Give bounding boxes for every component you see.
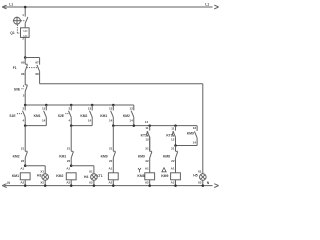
svg-text:97: 97 xyxy=(35,61,39,65)
svg-text:A2: A2 xyxy=(145,181,149,185)
svg-text:Q1: Q1 xyxy=(10,31,15,35)
svg-text:14: 14 xyxy=(145,120,149,124)
svg-text:E: E xyxy=(18,87,21,91)
svg-text:KM9: KM9 xyxy=(101,154,108,158)
svg-text:U<: U< xyxy=(24,29,28,33)
svg-text:A1: A1 xyxy=(20,167,24,171)
svg-text:14: 14 xyxy=(88,118,92,122)
svg-text:X2: X2 xyxy=(40,181,44,185)
svg-text:21: 21 xyxy=(67,147,71,151)
svg-text:1: 1 xyxy=(23,84,25,88)
svg-text:11: 11 xyxy=(171,127,175,131)
svg-text:13: 13 xyxy=(42,107,46,111)
svg-text:N: N xyxy=(7,181,10,185)
svg-text:KM8: KM8 xyxy=(137,174,144,178)
svg-text:11: 11 xyxy=(145,126,149,130)
svg-text:KM9: KM9 xyxy=(187,131,194,135)
svg-text:E: E xyxy=(13,114,16,118)
svg-text:22: 22 xyxy=(109,159,113,163)
svg-text:13: 13 xyxy=(109,107,113,111)
svg-text:22: 22 xyxy=(67,159,71,163)
svg-text:KM1: KM1 xyxy=(34,114,41,118)
svg-text:KM9: KM9 xyxy=(161,174,168,178)
svg-text:12: 12 xyxy=(171,138,175,142)
svg-text:X1: X1 xyxy=(40,170,44,174)
svg-text:14: 14 xyxy=(42,118,46,122)
svg-text:X1: X1 xyxy=(198,170,202,174)
svg-text:U<: U< xyxy=(24,34,28,38)
svg-text:22: 22 xyxy=(171,159,175,163)
svg-text:A1: A1 xyxy=(66,167,70,171)
svg-text:KM1: KM1 xyxy=(100,114,107,118)
svg-text:KM1: KM1 xyxy=(12,174,19,178)
svg-text:X1: X1 xyxy=(89,170,93,174)
svg-text:3: 3 xyxy=(23,107,25,111)
svg-text:E: E xyxy=(62,114,65,118)
svg-text:95: 95 xyxy=(21,60,25,64)
svg-text:X2: X2 xyxy=(89,181,93,185)
svg-text:N: N xyxy=(207,181,210,185)
svg-text:KM9: KM9 xyxy=(138,154,145,158)
svg-text:L1: L1 xyxy=(205,3,209,7)
svg-text:F1: F1 xyxy=(13,66,17,70)
svg-text:13: 13 xyxy=(193,126,197,130)
svg-text:A1: A1 xyxy=(108,167,112,171)
svg-text:A2: A2 xyxy=(171,181,175,185)
svg-text:X2: X2 xyxy=(198,181,202,185)
svg-text:14: 14 xyxy=(129,118,133,122)
svg-text:A1: A1 xyxy=(171,167,175,171)
svg-text:KM2: KM2 xyxy=(123,114,130,118)
svg-text:22: 22 xyxy=(21,159,25,163)
svg-text:KM1: KM1 xyxy=(59,154,66,158)
svg-text:3: 3 xyxy=(69,107,71,111)
svg-text:A2: A2 xyxy=(20,181,24,185)
svg-text:A2: A2 xyxy=(66,181,70,185)
svg-text:H4: H4 xyxy=(84,175,88,179)
svg-text:98: 98 xyxy=(35,72,39,76)
svg-text:12: 12 xyxy=(145,138,149,142)
svg-text:21: 21 xyxy=(171,147,175,151)
svg-text:H5: H5 xyxy=(193,173,197,177)
svg-text:21: 21 xyxy=(21,147,25,151)
svg-text:A1: A1 xyxy=(145,167,149,171)
svg-text:A2: A2 xyxy=(108,181,112,185)
svg-text:KM2: KM2 xyxy=(56,174,63,178)
svg-text:1: 1 xyxy=(22,13,24,17)
svg-text:4: 4 xyxy=(23,118,25,122)
svg-text:96: 96 xyxy=(21,72,25,76)
svg-text:21: 21 xyxy=(145,147,149,151)
svg-text:21: 21 xyxy=(109,147,113,151)
svg-text:22: 22 xyxy=(145,159,149,163)
svg-text:KM8: KM8 xyxy=(163,154,170,158)
svg-text:KM2: KM2 xyxy=(80,114,87,118)
svg-text:4: 4 xyxy=(69,118,71,122)
svg-text:KM2: KM2 xyxy=(13,154,20,158)
svg-text:2: 2 xyxy=(23,94,25,98)
svg-text:14: 14 xyxy=(193,141,197,145)
svg-text:13: 13 xyxy=(88,107,92,111)
svg-text:L1: L1 xyxy=(9,2,13,6)
svg-text:H3: H3 xyxy=(37,174,41,178)
svg-text:14: 14 xyxy=(109,118,113,122)
svg-text:13: 13 xyxy=(129,107,133,111)
